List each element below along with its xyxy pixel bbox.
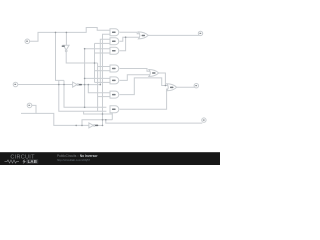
wire AND3 bottom feed [95,52,111,54]
junction AND5 top tap [84,78,86,80]
watermark bar [0,152,220,165]
and-gate AND3 [110,47,119,54]
not-gate NOT2 pointing right [73,82,82,87]
wire notIN2 riser to AND3 top [85,49,110,108]
wire IN2 drop to AND7 top input [64,80,106,107]
wire drop to AND7 bottom [59,80,107,111]
junction AND3 output join [125,36,127,38]
terminal OUT3 [202,118,206,122]
junction OUT3 branch [105,119,107,121]
junction IN2 line right [63,84,65,86]
wire OR3 output to OUT2 [176,86,195,88]
and-gate AND6 [110,91,119,98]
junction notIN2 end [100,84,102,86]
junction notIN2 riser [84,84,86,86]
junction notIN3 crossing lower [102,119,104,121]
junction IN3 branch [81,125,83,127]
wire vertical bus notIN3 to AND1 bottom [103,34,111,125]
wire AND3 output join [120,37,126,51]
wire net notIN3 from NOT3 [96,124,103,126]
wire OR1 output to OUT1 [147,34,199,36]
logo LAB [26,159,38,164]
wire AND5 bottom feed [95,81,111,83]
junction OR3 top input join [165,85,167,87]
not-gate NOT1 pointing down [62,45,69,52]
junction notIN3 output [102,125,104,127]
junction notIN3 crossing upper [102,113,104,115]
wire IN1 drop to AND7 lower input [56,32,65,80]
wire AND6 top feed [88,85,110,93]
wire to OUT3 bottom right [106,120,203,123]
or-gate OR2 [149,70,159,77]
wire AND7 output to OR3 [120,89,168,109]
wire vertical bus mid [94,43,96,82]
terminal IN3 [27,103,32,108]
wire AND6 output to OR3 [120,78,168,95]
logo bolt [23,159,27,164]
wire AND5 top feed [85,77,110,79]
junction mid bus crossing [94,62,96,64]
wire jog under AND7 [84,111,113,114]
or-gate OR1 [138,32,148,39]
junction NOT1 input [66,32,68,34]
wire OR2 output to OR3 [159,73,169,86]
wire net IN1 top bus [30,28,110,42]
wire IN3 to NOT3 input [36,113,89,125]
wire net notIN1 from NOT1 [66,52,97,63]
wire AND4 output to OR2 [120,69,150,72]
terminal OUT1 [198,31,202,35]
logo squiggle [5,160,20,163]
wire riser to AND2 top [100,39,110,84]
terminal IN2 [13,82,18,87]
and-gate AND2 [110,38,119,45]
svg-text:http://circuitlab.com/c6bj57: http://circuitlab.com/c6bj57 [57,158,91,162]
not-gate NOT3 pointing right [89,123,98,128]
junction IN3 line dot [75,125,77,127]
wire net IN2 line [18,84,73,86]
junction IN2 line left [58,84,60,86]
wire net IN3 [21,105,36,113]
junction AND3 top corner [84,48,86,50]
svg-text:LAB: LAB [28,159,37,164]
wire AND4 top feed [98,66,110,68]
wire AND4 bottom feed [95,70,111,72]
junction VA bottom join [84,107,86,109]
wire riser at AND7 bottom [111,112,113,119]
terminal OUT2 [194,84,198,88]
or-gate OR3 [167,84,177,91]
junction notIN2 AND6 branch [88,84,90,86]
terminal IN1 [25,39,30,44]
junction on top bus [55,32,57,34]
wire AND2 bottom feed [95,42,111,44]
wire AND1 output to OR1 [120,32,140,34]
wire IN3 branch upper [82,120,112,126]
and-gate AND1 [110,29,119,36]
wire AND2 output to OR1 [120,37,140,41]
and-gate AND4 [110,65,119,72]
wire NOT1 input drop [65,32,67,45]
and-gate AND5 [110,77,119,84]
wire net notIN2 from NOT2 [79,84,100,86]
wire vertical bus notIN1 [97,63,99,111]
and-gate AND7 [110,106,119,113]
wire AND5 output to OR2 [120,75,150,81]
wire AND6 bottom feed [98,96,110,98]
